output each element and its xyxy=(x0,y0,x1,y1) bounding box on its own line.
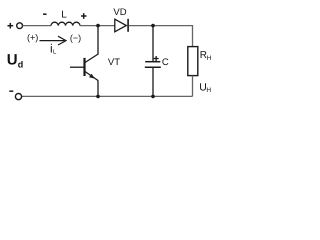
emitter diagonal xyxy=(85,72,98,81)
wire: right rail down from top corner xyxy=(192,25,194,47)
svg-text:U: U xyxy=(7,51,18,68)
svg-text:VT: VT xyxy=(108,57,120,68)
junction node above capacitor xyxy=(151,24,155,28)
diode VD triangle xyxy=(115,19,127,32)
wire: top-left terminal to inductor xyxy=(23,25,51,27)
svg-text:(+): (+) xyxy=(27,33,38,43)
junction node bottom emitter xyxy=(96,95,100,99)
bottom wire xyxy=(22,95,193,97)
collector diagonal xyxy=(85,54,98,63)
svg-text:L: L xyxy=(61,9,67,20)
emitter vertical wire down xyxy=(97,80,99,96)
svg-text:VD: VD xyxy=(113,7,126,18)
svg-text:H: H xyxy=(206,87,211,94)
inductor L (4 humps) xyxy=(51,22,80,25)
junction node bottom capacitor xyxy=(151,95,155,99)
svg-text:H: H xyxy=(207,55,212,62)
junction node after inductor xyxy=(96,24,100,28)
capacitor top lead xyxy=(152,26,154,61)
capacitor top plate xyxy=(145,61,160,63)
base bar xyxy=(83,58,85,76)
wire: resistor bottom to bottom rail xyxy=(192,76,194,97)
minus polarity mark left of L xyxy=(43,13,47,15)
capacitor bottom lead xyxy=(152,68,154,97)
capacitor bottom plate xyxy=(145,66,161,68)
svg-text:C: C xyxy=(162,57,169,68)
input terminal circle (bottom) xyxy=(15,94,21,100)
minus sign at bottom-left input terminal xyxy=(9,90,13,92)
svg-text:d: d xyxy=(18,59,24,69)
plus polarity mark right of L xyxy=(81,13,87,19)
wire: diode to cap junction to right corner xyxy=(129,25,193,27)
diode VD cathode bar xyxy=(127,19,129,32)
capacitor plus mark xyxy=(154,56,159,61)
svg-text:(−): (−) xyxy=(70,33,81,43)
transistor VT collector vertical wire xyxy=(97,26,99,55)
resistor RH box xyxy=(188,47,198,76)
input terminal circle (top) xyxy=(17,23,23,29)
plus sign at top-left input terminal xyxy=(8,23,14,29)
emitter arrowhead xyxy=(89,74,95,79)
arrow for iL current xyxy=(40,36,67,45)
base lead xyxy=(70,66,84,68)
wire: inductor to diode xyxy=(80,25,115,27)
